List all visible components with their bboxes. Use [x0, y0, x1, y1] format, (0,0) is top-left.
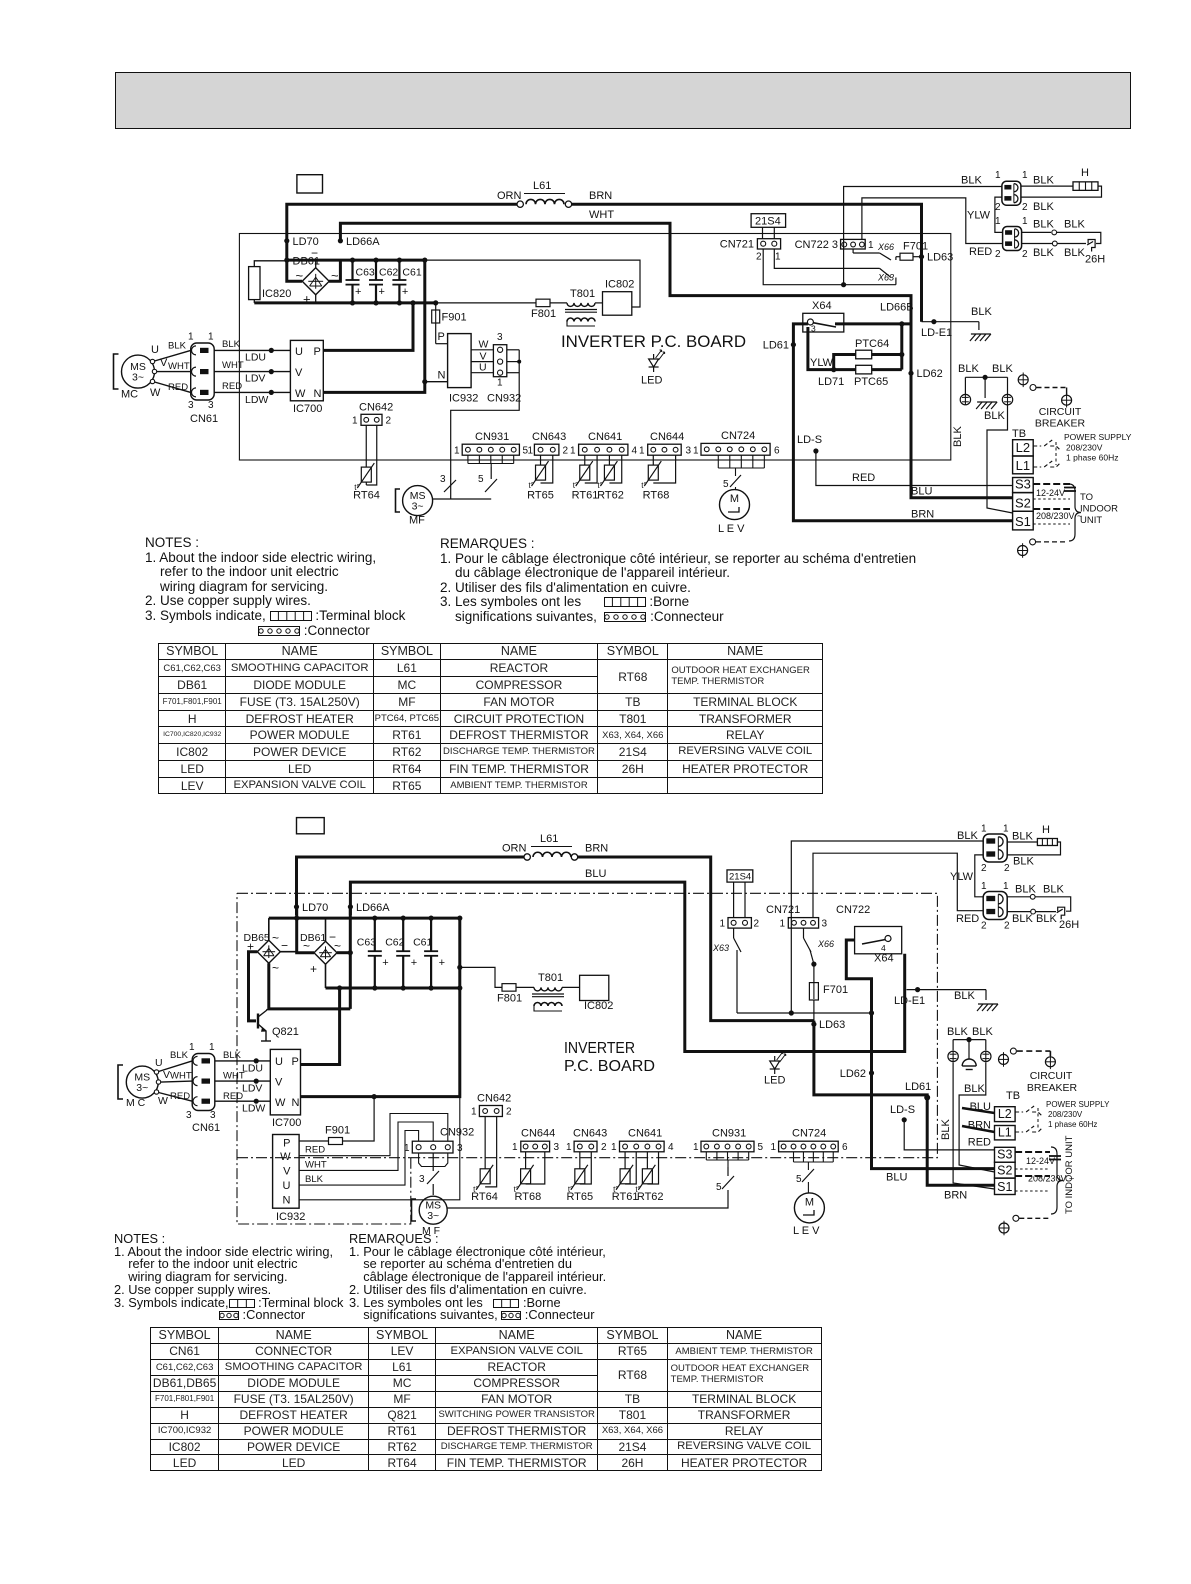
wire X64 left to LD61 riser and BRN to S1 — [793, 324, 1012, 521]
svg-text:TO: TO — [1080, 492, 1093, 503]
svg-text:RED: RED — [222, 381, 242, 392]
svg-text:INDOOR: INDOOR — [1080, 504, 1118, 515]
svg-text:U: U — [151, 344, 159, 356]
svg-text:V: V — [163, 1069, 170, 1081]
connector CN642 — [361, 414, 382, 425]
svg-text:IC700: IC700 — [293, 403, 322, 415]
svg-text:CN724: CN724 — [792, 1128, 826, 1140]
svg-text:BRN: BRN — [968, 1120, 991, 1132]
svg-text:2: 2 — [1022, 202, 1028, 213]
svg-text:~: ~ — [303, 939, 310, 953]
node LD62 — [869, 1070, 874, 1075]
LED D1 — [653, 354, 655, 359]
svg-text:1: 1 — [981, 824, 987, 835]
wires 21S4 to CN721 — [762, 227, 764, 238]
svg-text:3: 3 — [419, 1174, 425, 1185]
svg-text:PTC64: PTC64 — [855, 338, 889, 350]
svg-text:BLK: BLK — [1013, 856, 1034, 868]
svg-text:~: ~ — [272, 961, 279, 975]
wire to fuse F801 — [460, 967, 502, 987]
svg-text:LDW: LDW — [242, 1103, 265, 1115]
svg-text:N: N — [438, 370, 446, 382]
thermistor RT65 wiring — [579, 1152, 581, 1169]
relay contact 3 on fan wire — [444, 480, 456, 492]
chassis ground — [978, 322, 980, 330]
wires 21S4 to CN721 — [733, 882, 735, 918]
svg-text:LD70: LD70 — [302, 902, 328, 914]
svg-text:208/230V: 208/230V — [1048, 1110, 1083, 1119]
svg-text:5: 5 — [716, 1182, 722, 1193]
svg-text:BLK: BLK — [1015, 884, 1036, 896]
svg-text:CN931: CN931 — [712, 1128, 746, 1140]
svg-text:LD61: LD61 — [905, 1081, 931, 1093]
connector CN641 — [579, 444, 628, 455]
power module IC932 — [448, 334, 472, 388]
svg-text:WHT: WHT — [170, 1071, 192, 1082]
svg-text:CIRCUIT: CIRCUIT — [1039, 406, 1082, 418]
wire BLK junction up to heater relay connector — [791, 841, 983, 1013]
svg-text:YLW: YLW — [967, 210, 991, 222]
svg-text:CIRCUIT: CIRCUIT — [1030, 1070, 1073, 1082]
node LD61 — [791, 342, 796, 347]
svg-text:RED: RED — [956, 913, 979, 925]
svg-text:S2: S2 — [1015, 495, 1031, 510]
node DB61 minus junction — [284, 258, 289, 263]
compressor motor MC — [126, 1066, 158, 1098]
node to transformer feed — [457, 965, 462, 970]
bottom earth — [1013, 1215, 1019, 1221]
svg-text:2: 2 — [995, 202, 1001, 213]
svg-text:3: 3 — [811, 324, 816, 334]
board outline lower-left protrusion — [237, 893, 411, 1224]
node N to IC932 — [422, 379, 427, 384]
transformer T801 — [567, 303, 595, 307]
svg-text:L E V: L E V — [718, 523, 745, 535]
fuse F901 wiring — [343, 1097, 375, 1141]
heater protector 26H — [1058, 907, 1065, 919]
svg-text:4: 4 — [632, 446, 638, 457]
svg-text:BLK: BLK — [1064, 247, 1085, 259]
svg-text:−: − — [281, 939, 288, 953]
node LD71 — [831, 367, 836, 372]
CN724 loop bus — [793, 1152, 795, 1162]
svg-text:BLK: BLK — [1033, 175, 1054, 187]
svg-text:RT64: RT64 — [471, 1191, 498, 1203]
svg-text:S2: S2 — [997, 1164, 1012, 1178]
svg-text:BLK: BLK — [1033, 219, 1054, 231]
svg-text:6: 6 — [842, 1142, 848, 1153]
svg-text:X63: X63 — [712, 943, 729, 953]
svg-text:1: 1 — [566, 1142, 572, 1153]
svg-text:C62: C62 — [379, 267, 398, 279]
svg-text:INVERTER P.C. BOARD: INVERTER P.C. BOARD — [561, 332, 746, 351]
svg-text:POWER SUPPLY: POWER SUPPLY — [1064, 432, 1132, 442]
svg-text:~: ~ — [272, 931, 279, 945]
svg-text:21S4: 21S4 — [755, 216, 781, 228]
svg-text:BRN: BRN — [911, 509, 934, 521]
svg-text:2: 2 — [995, 249, 1001, 260]
svg-text:BREAKER: BREAKER — [1027, 1082, 1078, 1094]
wire LDV CN61 to IC700 V — [214, 371, 290, 373]
svg-text:3: 3 — [822, 919, 828, 930]
connector CN931 — [462, 444, 519, 455]
svg-text:BLK: BLK — [972, 1026, 993, 1038]
smoothing capacitors C63 C62 C61 — [372, 916, 377, 921]
wire BLK junction to heater relay connector — [844, 187, 1002, 285]
svg-text:2: 2 — [756, 252, 762, 263]
svg-text:2: 2 — [1022, 249, 1028, 260]
power device IC802 — [580, 975, 609, 1000]
svg-text:X64: X64 — [812, 300, 832, 312]
svg-text:CN932: CN932 — [487, 393, 521, 405]
svg-text:BLU: BLU — [911, 486, 932, 498]
circled plus and circuit breaker — [999, 1054, 1009, 1064]
svg-text:CN643: CN643 — [573, 1128, 607, 1140]
svg-text:BLK: BLK — [223, 1050, 242, 1061]
relay contact 5 on fan wire — [485, 479, 497, 492]
svg-text:1: 1 — [779, 919, 785, 930]
relay connector to defrost heater (upper) — [1002, 181, 1021, 205]
svg-text:RED: RED — [170, 1091, 190, 1102]
svg-text:H: H — [1042, 824, 1050, 836]
svg-text:BREAKER: BREAKER — [1035, 418, 1086, 430]
svg-text:1: 1 — [693, 1142, 699, 1153]
svg-text:2: 2 — [601, 1142, 607, 1153]
fuse F901 — [435, 303, 437, 310]
svg-text:X64: X64 — [874, 953, 894, 965]
svg-text:W: W — [275, 1097, 286, 1109]
svg-text:F801: F801 — [531, 308, 556, 320]
wire DB65 right vertex to AC node — [280, 951, 296, 953]
wires LDU LDV LDW — [215, 1060, 270, 1062]
wires IC932 to CN932 W V U — [471, 349, 493, 351]
svg-text:2: 2 — [754, 919, 760, 930]
node DC minus corner — [422, 258, 427, 263]
svg-text:M: M — [805, 1197, 814, 1209]
svg-text:X66: X66 — [877, 242, 894, 252]
svg-text:V: V — [295, 367, 303, 379]
wire BLK to terminal block — [959, 1062, 994, 1172]
circled plus earth symbols and circuit breaker — [1018, 375, 1028, 385]
svg-text:1: 1 — [771, 1142, 777, 1153]
svg-text:LD62: LD62 — [840, 1068, 866, 1080]
svg-text:2: 2 — [1004, 863, 1010, 874]
earth wiring BLK BLK — [953, 1039, 986, 1041]
wire LD-E1 to chassis ground — [907, 989, 987, 991]
node LD70 — [284, 238, 289, 243]
svg-text:BRN: BRN — [589, 190, 612, 202]
svg-text:26H: 26H — [1059, 919, 1079, 931]
wire X64 through-wire to main riser — [835, 322, 911, 325]
node F901 junction — [372, 1094, 377, 1099]
svg-text:S1: S1 — [997, 1180, 1012, 1194]
svg-text:BLK: BLK — [964, 1083, 985, 1095]
svg-text:26H: 26H — [1085, 254, 1105, 266]
wires CN932 loop to fan connector area — [507, 349, 519, 351]
svg-text:LDV: LDV — [242, 1083, 262, 1095]
svg-text:RT68: RT68 — [643, 490, 670, 502]
svg-text:U: U — [479, 362, 487, 374]
fuse F801 — [536, 299, 550, 307]
connector CN721 — [728, 918, 751, 929]
svg-text:LD71: LD71 — [818, 376, 844, 388]
svg-text:BLK: BLK — [971, 306, 992, 318]
svg-text:BLK: BLK — [952, 426, 964, 447]
svg-text:12-24V: 12-24V — [1026, 1156, 1055, 1166]
indoor unit dashed wiring — [1033, 483, 1070, 485]
svg-text:P: P — [438, 331, 445, 343]
svg-text:L61: L61 — [540, 833, 558, 845]
svg-text:1: 1 — [995, 216, 1001, 227]
connector CN644 — [521, 1141, 550, 1152]
diode module DB65 — [257, 940, 280, 963]
svg-text:3: 3 — [208, 400, 214, 411]
svg-text:T801: T801 — [538, 972, 563, 984]
svg-text:1: 1 — [209, 1042, 215, 1053]
svg-text:208/230V: 208/230V — [1066, 443, 1103, 453]
svg-text:CN722: CN722 — [836, 904, 870, 916]
svg-text:U: U — [155, 1057, 163, 1069]
wire motor W RED to CN61 — [155, 382, 191, 392]
svg-text:1: 1 — [995, 170, 1001, 181]
svg-text:YLW: YLW — [810, 357, 834, 369]
fuse F801 — [502, 984, 516, 992]
svg-text:P: P — [314, 346, 321, 358]
svg-text:1: 1 — [454, 446, 460, 457]
svg-text:+: + — [310, 962, 317, 976]
reversing valve coil 21S4 box — [751, 214, 786, 228]
svg-text:21S4: 21S4 — [729, 872, 751, 883]
svg-text:WHT: WHT — [222, 360, 244, 371]
svg-text:3: 3 — [186, 1110, 192, 1121]
svg-text:1: 1 — [868, 240, 874, 251]
svg-text:BLK: BLK — [958, 363, 979, 375]
wire BLK to terminal block — [987, 405, 1013, 513]
wire LDW CN61 to IC700 W — [214, 391, 290, 393]
wire LD-E1 to chassis ground — [922, 321, 979, 323]
svg-text:LDW: LDW — [245, 394, 268, 406]
label box (model ref) — [297, 818, 325, 834]
connector CN724 — [779, 1141, 839, 1152]
wire AC2 from LD66A riser down through DB61 right vertex — [349, 907, 352, 1009]
svg-text:WHT: WHT — [305, 1159, 327, 1170]
relay connector to 26H (lower) — [1003, 227, 1022, 251]
svg-text:W: W — [150, 387, 161, 399]
smoothing capacitors C63 C62 C61 — [350, 258, 355, 263]
wire motor V WHT to CN61 — [161, 1081, 193, 1082]
CN932 pin loop — [419, 1153, 448, 1167]
svg-text:RT65: RT65 — [527, 490, 554, 502]
thermistor RT64 — [361, 467, 371, 482]
svg-text:5: 5 — [723, 479, 729, 490]
label box (model ref) — [297, 175, 323, 193]
svg-text:BLK: BLK — [961, 175, 982, 187]
svg-text:CN644: CN644 — [521, 1128, 555, 1140]
svg-text:BLK: BLK — [1012, 913, 1033, 925]
svg-text:1 phase 60Hz: 1 phase 60Hz — [1048, 1120, 1097, 1129]
svg-text:F701: F701 — [823, 984, 848, 996]
wire LD63 down to LD61 and BRN to S1 — [814, 1021, 995, 1186]
svg-text:5: 5 — [796, 1174, 802, 1185]
svg-text:3~: 3~ — [412, 501, 424, 513]
relay contact X63 — [774, 249, 879, 268]
wire YLW between relay connectors — [975, 855, 983, 897]
defrost heater H — [1073, 182, 1098, 191]
svg-text:MC: MC — [121, 389, 138, 401]
wire DC minus down to IC700 N — [323, 260, 425, 392]
bottom earth — [1030, 539, 1036, 545]
svg-text:UNIT: UNIT — [1080, 515, 1102, 526]
wire BLU to L2 — [962, 1108, 995, 1113]
svg-text:IC802: IC802 — [605, 279, 634, 291]
earth wiring BLK BLK — [965, 376, 1007, 378]
circuit protector PTC65 — [834, 368, 856, 371]
connector CN61 — [192, 1054, 215, 1111]
connector CN721 — [757, 239, 780, 249]
svg-text:3: 3 — [210, 1110, 216, 1121]
svg-text:L1: L1 — [998, 1125, 1012, 1139]
node DC plus corner — [410, 300, 415, 305]
connector CN724 — [701, 443, 770, 455]
wire minus bus extension to IC802 — [425, 260, 640, 307]
thermistor RT62 wiring — [608, 455, 610, 465]
power module IC700 — [290, 340, 323, 400]
svg-text:W: W — [479, 339, 489, 351]
svg-text:F801: F801 — [497, 993, 522, 1005]
svg-text:L E V: L E V — [793, 1225, 820, 1237]
svg-text:1: 1 — [497, 378, 503, 389]
svg-text:~: ~ — [296, 268, 304, 283]
node LD70 — [294, 904, 299, 909]
wire RED CN722 pin3 to 26H relay connector — [813, 853, 983, 917]
svg-text:2: 2 — [563, 446, 569, 457]
connector CN641 — [620, 1141, 665, 1152]
svg-text:U: U — [275, 1056, 283, 1068]
switching power transistor Q821 — [257, 1014, 259, 1029]
relay X64 box — [855, 927, 902, 954]
wire ORN from LD70 riser to reactor L61 — [287, 204, 520, 259]
wire heater loop — [1021, 185, 1073, 187]
svg-text:RT65: RT65 — [566, 1191, 593, 1203]
wire IC932 N — [299, 1097, 460, 1200]
top notes FR — [440, 537, 916, 625]
svg-text:4: 4 — [881, 943, 886, 953]
svg-text:1: 1 — [189, 1042, 195, 1053]
svg-text:1: 1 — [471, 1107, 477, 1118]
chassis ground center — [984, 377, 986, 398]
svg-text:RED: RED — [223, 1091, 243, 1102]
node X66 output — [895, 257, 897, 260]
svg-text:3~: 3~ — [132, 372, 144, 384]
svg-text:Q821: Q821 — [272, 1026, 299, 1038]
reactor L61 — [533, 852, 571, 857]
power module IC700 — [270, 1049, 300, 1115]
wire motor U BLK to CN61 — [159, 1061, 193, 1072]
CN931 pin loop bus — [467, 455, 469, 463]
svg-text:1: 1 — [570, 446, 576, 457]
wire DB65 bottom vertex bus — [269, 963, 351, 1009]
thermistor RT65 wiring — [540, 455, 542, 465]
reactor L61 — [526, 199, 564, 204]
svg-text:S1: S1 — [1015, 514, 1031, 529]
svg-text:1: 1 — [352, 416, 358, 427]
node BRN terminal — [565, 201, 571, 207]
relay connector to defrost heater (upper) — [983, 834, 1007, 862]
svg-text:1: 1 — [981, 881, 987, 892]
svg-text:TO INDOOR UNIT: TO INDOOR UNIT — [1064, 1135, 1075, 1214]
svg-text:MF: MF — [409, 515, 425, 527]
wire AC2 into bridge DB61 from LD66A riser — [329, 260, 340, 281]
svg-text:3: 3 — [554, 1142, 560, 1153]
node LD62 — [908, 371, 913, 376]
wire LDU CN61 to IC700 U — [214, 349, 290, 351]
wire AC1 from LD70 to DB61 — [297, 907, 314, 953]
CN724 pin loop bus — [717, 455, 719, 468]
power supply dashed wiring — [1033, 440, 1060, 450]
svg-text:RT68: RT68 — [515, 1191, 542, 1203]
node ORN terminal — [524, 854, 530, 860]
svg-text:3: 3 — [457, 1143, 463, 1154]
svg-text:CN722 3: CN722 3 — [795, 239, 838, 251]
wire BRN from L61 down to LD63 — [578, 857, 814, 1021]
svg-text:1: 1 — [208, 332, 214, 343]
svg-text:S3: S3 — [997, 1148, 1012, 1162]
fuse F701 — [813, 964, 815, 983]
wire F901 to IC932 P — [436, 343, 448, 345]
svg-text:CN932: CN932 — [440, 1127, 474, 1139]
svg-text:CN721: CN721 — [766, 904, 800, 916]
defrost heater H — [1037, 839, 1057, 846]
svg-text:LD66A: LD66A — [356, 902, 390, 914]
relay contact X66 — [852, 249, 854, 252]
svg-text:X66: X66 — [817, 939, 834, 949]
thermistor RT61 wiring — [584, 455, 586, 465]
svg-text:P.C. BOARD: P.C. BOARD — [564, 1058, 655, 1075]
svg-text:LD-S: LD-S — [890, 1104, 915, 1116]
svg-text:N: N — [292, 1097, 300, 1109]
svg-text:3: 3 — [686, 446, 692, 457]
svg-text:V: V — [283, 1166, 291, 1178]
fan motor MF — [403, 486, 433, 516]
svg-text:BLK: BLK — [1064, 219, 1085, 231]
symbol table bottom — [150, 1327, 822, 1471]
svg-text:P: P — [283, 1138, 290, 1150]
circuit protector PTC64 — [834, 355, 856, 370]
svg-text:BLK: BLK — [1043, 884, 1064, 896]
wire motor V WHT to CN61 — [157, 371, 191, 373]
wire motor W RED to CN61 — [159, 1093, 193, 1102]
svg-text:+: + — [355, 286, 361, 298]
svg-text:N: N — [283, 1195, 291, 1207]
svg-text:C61: C61 — [413, 937, 432, 949]
bottom notes EN — [114, 1233, 343, 1322]
svg-text:M: M — [730, 493, 739, 505]
svg-text:BLU: BLU — [585, 868, 606, 880]
svg-text:BLK: BLK — [1033, 201, 1054, 213]
svg-text:LD66B: LD66B — [880, 302, 914, 314]
CN931 loop bus — [705, 1152, 707, 1160]
thermistor RT62 wiring — [646, 1152, 648, 1169]
svg-text:BLK: BLK — [957, 830, 978, 842]
svg-text:LD63: LD63 — [819, 1019, 845, 1031]
wires CN642 to RT64 — [484, 1117, 486, 1169]
junction bus to BLU riser — [737, 1012, 872, 1014]
node LD-S and wire RED to S3 — [813, 448, 818, 453]
svg-text:BLK: BLK — [1036, 913, 1057, 925]
wire YLW between relay connectors — [995, 197, 1003, 232]
connector CN644 — [648, 444, 682, 455]
board outline inner bottom segment — [237, 1157, 411, 1159]
